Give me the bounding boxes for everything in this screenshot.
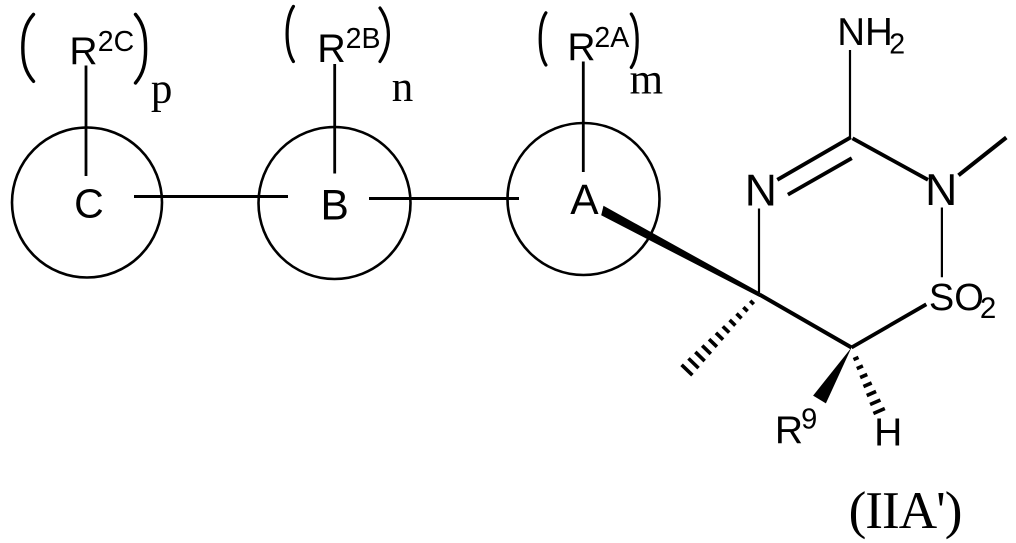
- bond C1 to N right: [853, 138, 929, 180]
- atom SO2: [929, 277, 996, 325]
- svg-text:N: N: [925, 166, 957, 215]
- bold wedge C6 to R9: [813, 348, 851, 404]
- svg-text:SO: SO: [929, 277, 984, 319]
- substituent stem on C: [85, 66, 88, 177]
- label (R2B)n: [287, 6, 413, 111]
- svg-text:NH: NH: [837, 11, 893, 54]
- substituent stem on A: [582, 62, 585, 173]
- svg-text:2: 2: [889, 29, 905, 61]
- svg-text:H: H: [874, 411, 902, 454]
- bond N-methyl: [959, 138, 1007, 176]
- bond C-B: [134, 195, 288, 198]
- thiadiazine ring bonds: [759, 50, 1006, 348]
- bond C5 to C6: [760, 295, 852, 348]
- svg-text:R: R: [69, 30, 97, 73]
- bold wedge bond A to C5: [601, 206, 759, 297]
- bond N right to S: [941, 208, 943, 278]
- label R9: [775, 404, 817, 452]
- atom NH2: [837, 11, 905, 61]
- svg-text:n: n: [392, 64, 414, 111]
- hashed bond C5 methyl: [682, 301, 754, 375]
- svg-text:R: R: [775, 409, 803, 452]
- ring A circle: [508, 123, 660, 275]
- svg-text:2B: 2B: [346, 23, 381, 55]
- svg-text:C: C: [74, 181, 104, 227]
- ring C circle: [12, 128, 162, 278]
- svg-text:N: N: [745, 167, 777, 216]
- svg-text:R: R: [317, 27, 346, 71]
- svg-text:m: m: [630, 56, 663, 103]
- svg-text:2: 2: [980, 292, 996, 325]
- label (R2C)p: [23, 14, 173, 112]
- bond B-A: [369, 197, 519, 200]
- hashed bond C6 to H: [853, 357, 884, 413]
- double bond C1=N main: [777, 137, 851, 180]
- svg-text:(IIA'): (IIA'): [849, 481, 962, 540]
- svg-text:R: R: [567, 26, 595, 69]
- svg-text:2C: 2C: [98, 26, 134, 58]
- double bond C1=N inner: [788, 158, 852, 194]
- substituent stem on B: [333, 64, 336, 174]
- svg-text:p: p: [151, 66, 173, 113]
- ring B circle: [259, 127, 411, 279]
- svg-text:2A: 2A: [594, 22, 629, 54]
- bond NH2 stem: [849, 50, 851, 138]
- svg-text:A: A: [570, 177, 599, 224]
- label (R2A)m: [540, 13, 663, 104]
- svg-text:B: B: [321, 183, 349, 230]
- bond N left to C5: [758, 209, 760, 295]
- bond S to C6: [852, 304, 927, 347]
- svg-text:9: 9: [801, 404, 817, 436]
